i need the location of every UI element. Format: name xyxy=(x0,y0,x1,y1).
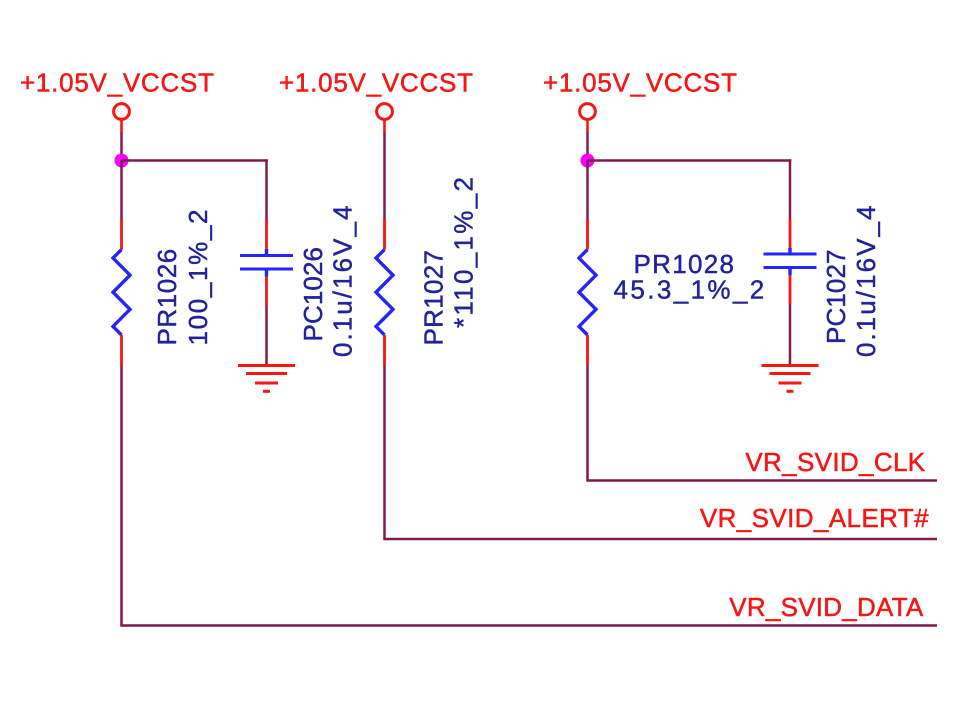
capacitor PC1026 pin 2 (red) xyxy=(265,277,268,306)
svg-text:+1.05V_VCCST: +1.05V_VCCST xyxy=(20,68,215,98)
svg-text:+1.05V_VCCST: +1.05V_VCCST xyxy=(543,68,738,98)
svg-text:*110_1%_2: *110_1%_2 xyxy=(449,175,479,328)
ground symbol (PC1027) xyxy=(762,366,819,392)
wire: PC1026 to ground xyxy=(265,306,268,367)
power symbol circle (net 1) xyxy=(114,104,130,120)
resistor PR1028 pin 2 (red) xyxy=(586,335,589,366)
capacitor PC1027 top lead nub xyxy=(788,248,791,253)
capacitor PC1026 pin 1 (red) xyxy=(265,219,268,249)
wire: power1 down to node A xyxy=(120,133,123,161)
wire: PR1028 down to VR_SVID_CLK xyxy=(586,366,589,481)
capacitor PC1027 top plate xyxy=(764,253,817,256)
resistor PR1026 pin 2 (red) xyxy=(120,335,123,366)
capacitor PC1027 pin 2 (red) xyxy=(789,275,792,305)
resistor PR1026 zigzag body xyxy=(113,250,130,336)
resistor PR1026 pin 1 (red) xyxy=(120,219,123,250)
wire: PC1027 to ground xyxy=(789,305,792,367)
svg-text:VR_SVID_CLK: VR_SVID_CLK xyxy=(745,447,925,477)
svg-text:100_1%_2: 100_1%_2 xyxy=(183,208,213,346)
wire: PR1027 down to VR_SVID_ALERT# xyxy=(383,366,386,540)
resistor PR1027 pin 1 (red) xyxy=(383,219,386,250)
power symbol circle (net 2) xyxy=(377,104,393,120)
capacitor PC1026 bottom lead nub xyxy=(265,271,268,277)
svg-text:PR1027: PR1027 xyxy=(419,250,449,346)
power pin stub 2 xyxy=(383,120,386,133)
svg-text:PC1027: PC1027 xyxy=(821,249,851,344)
svg-text:+1.05V_VCCST: +1.05V_VCCST xyxy=(279,68,474,98)
power symbol circle (net 3) xyxy=(580,104,596,120)
node A junction dot xyxy=(115,154,129,168)
power pin stub 3 xyxy=(586,120,589,133)
wire: node A to capacitor PC1026 branch (horizontal) xyxy=(122,159,268,162)
svg-text:0.1u/16V_4: 0.1u/16V_4 xyxy=(851,203,881,357)
wire: node B down to resistor PR1028 xyxy=(586,161,589,220)
svg-text:PC1026: PC1026 xyxy=(298,247,328,342)
power pin stub 1 xyxy=(120,120,123,133)
node B junction dot xyxy=(581,154,595,168)
wire: power2 down to resistor PR1027 xyxy=(383,133,386,220)
resistor PR1028 zigzag body xyxy=(579,250,596,336)
wire: power3 down to node B xyxy=(586,133,589,161)
capacitor PC1026 top lead nub xyxy=(265,249,268,254)
wire: cap branch down from node B xyxy=(789,159,792,219)
wire: node B to capacitor PC1027 branch (horizontal) xyxy=(588,159,792,162)
svg-text:PR1026: PR1026 xyxy=(152,248,182,345)
ground symbol (PC1026) xyxy=(238,366,295,392)
resistor PR1028 pin 1 (red) xyxy=(586,219,589,250)
wire: VR_SVID_ALERT# horizontal xyxy=(383,538,937,541)
capacitor PC1027 bottom lead nub xyxy=(788,269,791,275)
resistor PR1027 zigzag body xyxy=(376,250,393,336)
wire: cap branch down from node A xyxy=(265,159,268,219)
capacitor PC1027 bottom plate xyxy=(764,266,817,269)
svg-text:0.1u/16V_4: 0.1u/16V_4 xyxy=(328,203,358,357)
wire: PR1026 down to VR_SVID_DATA xyxy=(120,366,123,626)
capacitor PC1027 pin 1 (red) xyxy=(789,219,792,248)
resistor PR1027 pin 2 (red) xyxy=(383,335,386,366)
capacitor PC1026 bottom plate xyxy=(240,268,293,271)
svg-text:VR_SVID_ALERT#: VR_SVID_ALERT# xyxy=(700,503,929,533)
wire: VR_SVID_DATA horizontal xyxy=(120,624,937,627)
wire: node A down to resistor PR1026 xyxy=(120,161,123,220)
svg-text:VR_SVID_DATA: VR_SVID_DATA xyxy=(729,592,924,622)
svg-text:45.3_1%_2: 45.3_1%_2 xyxy=(614,275,767,305)
capacitor PC1026 top plate xyxy=(240,254,293,257)
wire: VR_SVID_CLK horizontal xyxy=(586,479,937,482)
